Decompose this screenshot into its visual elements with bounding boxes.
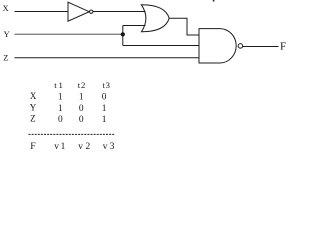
svg-text:1: 1 (58, 93, 63, 103)
svg-text:Z: Z (30, 114, 35, 124)
svg-text:1: 1 (59, 80, 63, 90)
svg-text:1: 1 (58, 104, 63, 114)
svg-text:3: 3 (106, 80, 110, 90)
svg-text:v: v (78, 142, 83, 152)
svg-text:0: 0 (79, 104, 84, 114)
svg-text:1: 1 (102, 104, 107, 114)
svg-text:v: v (54, 142, 59, 152)
svg-text:F: F (30, 141, 36, 152)
svg-text:v: v (103, 142, 108, 152)
svg-text:t: t (54, 80, 57, 90)
svg-text:3: 3 (110, 142, 115, 152)
svg-text:1: 1 (79, 93, 84, 103)
svg-text:0: 0 (79, 115, 84, 125)
svg-text:Y: Y (4, 30, 10, 39)
svg-text:F: F (280, 40, 286, 52)
svg-text:0: 0 (102, 93, 107, 103)
svg-text:X: X (30, 91, 37, 101)
svg-text:1: 1 (61, 142, 66, 152)
svg-text:2: 2 (81, 80, 85, 90)
svg-text:Z: Z (3, 54, 8, 63)
svg-text:2: 2 (86, 142, 91, 152)
svg-text:1: 1 (102, 115, 107, 125)
svg-text:Y: Y (30, 102, 37, 112)
svg-text:0: 0 (58, 115, 63, 125)
svg-text:X: X (3, 4, 9, 13)
